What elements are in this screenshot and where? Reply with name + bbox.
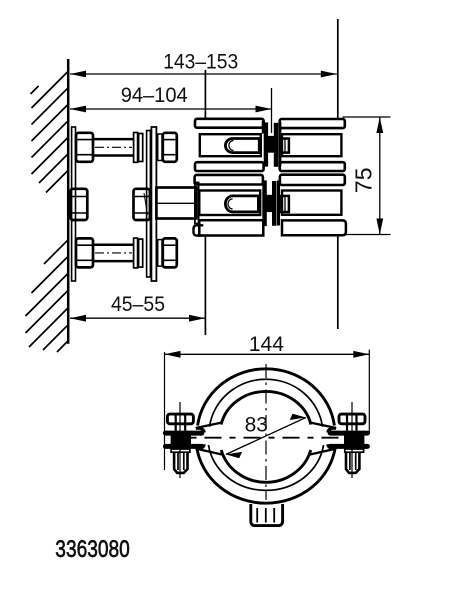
svg-text:75: 75 [350, 168, 376, 194]
svg-text:45–55: 45–55 [111, 293, 165, 316]
svg-text:144: 144 [249, 333, 284, 356]
svg-text:83: 83 [245, 413, 268, 436]
svg-text:94–104: 94–104 [121, 84, 188, 107]
svg-text:143–153: 143–153 [163, 51, 238, 74]
svg-text:3363080: 3363080 [55, 536, 130, 563]
